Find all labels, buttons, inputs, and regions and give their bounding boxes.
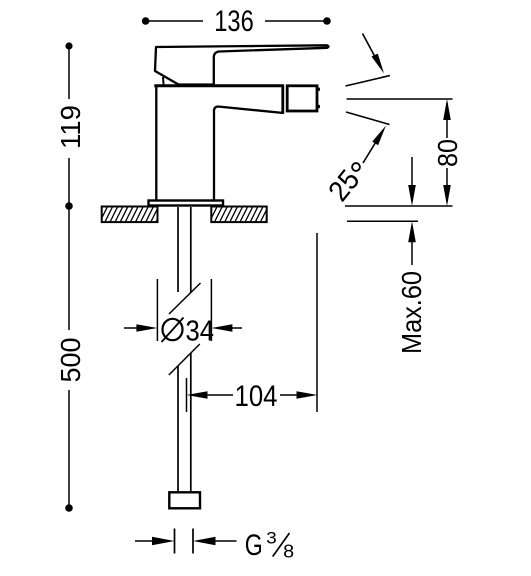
svg-text:119: 119: [55, 105, 86, 149]
svg-text:8: 8: [283, 542, 294, 562]
svg-text:34: 34: [186, 316, 215, 348]
svg-text:104: 104: [235, 380, 278, 413]
svg-text:500: 500: [55, 338, 86, 383]
svg-text:80: 80: [432, 139, 463, 167]
svg-text:3: 3: [266, 529, 277, 547]
svg-text:G: G: [245, 529, 263, 562]
svg-text:Max.60: Max.60: [396, 271, 427, 354]
svg-text:136: 136: [214, 5, 254, 38]
